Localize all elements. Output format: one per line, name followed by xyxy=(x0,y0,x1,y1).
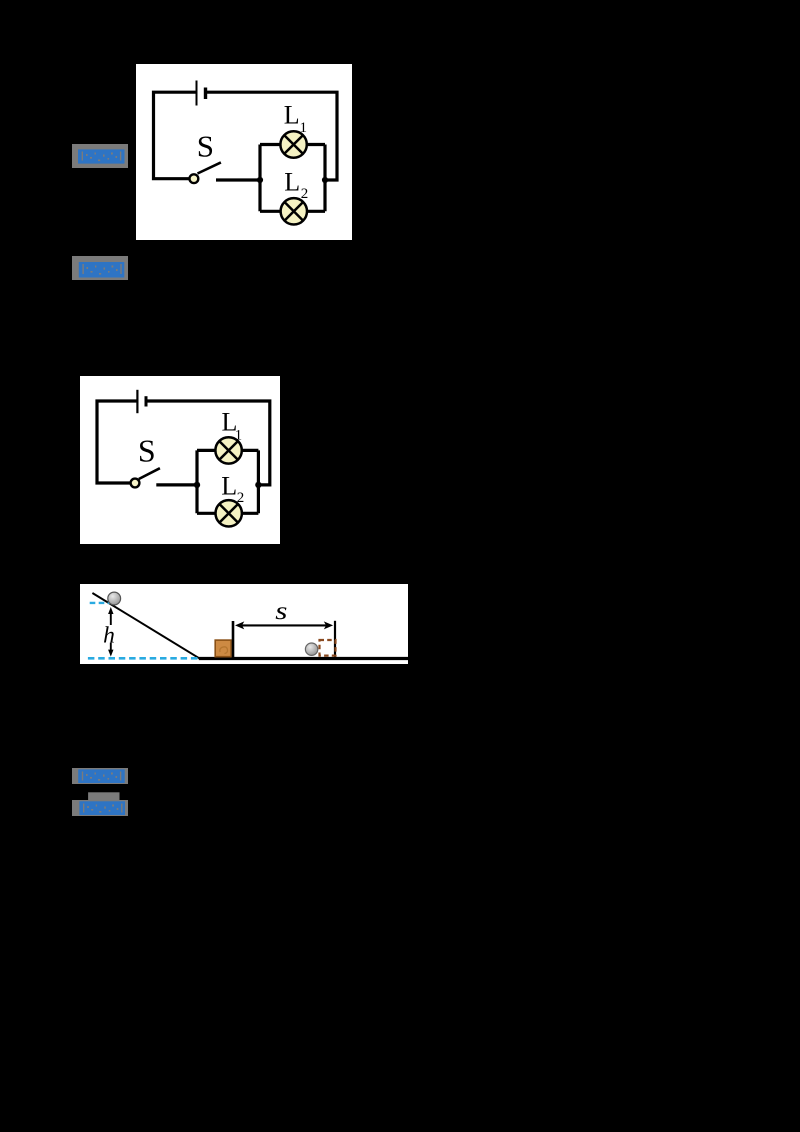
svg-text:2: 2 xyxy=(301,186,309,202)
svg-text:h: h xyxy=(103,623,115,649)
svg-text:s: s xyxy=(275,598,287,625)
svg-text:L: L xyxy=(284,100,300,129)
svg-text:S: S xyxy=(138,433,156,469)
svg-text:L: L xyxy=(284,167,300,196)
svg-text:1: 1 xyxy=(300,120,308,136)
svg-text:1: 1 xyxy=(235,427,243,443)
svg-text:2: 2 xyxy=(237,490,245,506)
svg-text:S: S xyxy=(197,129,214,164)
svg-text:L: L xyxy=(221,472,237,501)
